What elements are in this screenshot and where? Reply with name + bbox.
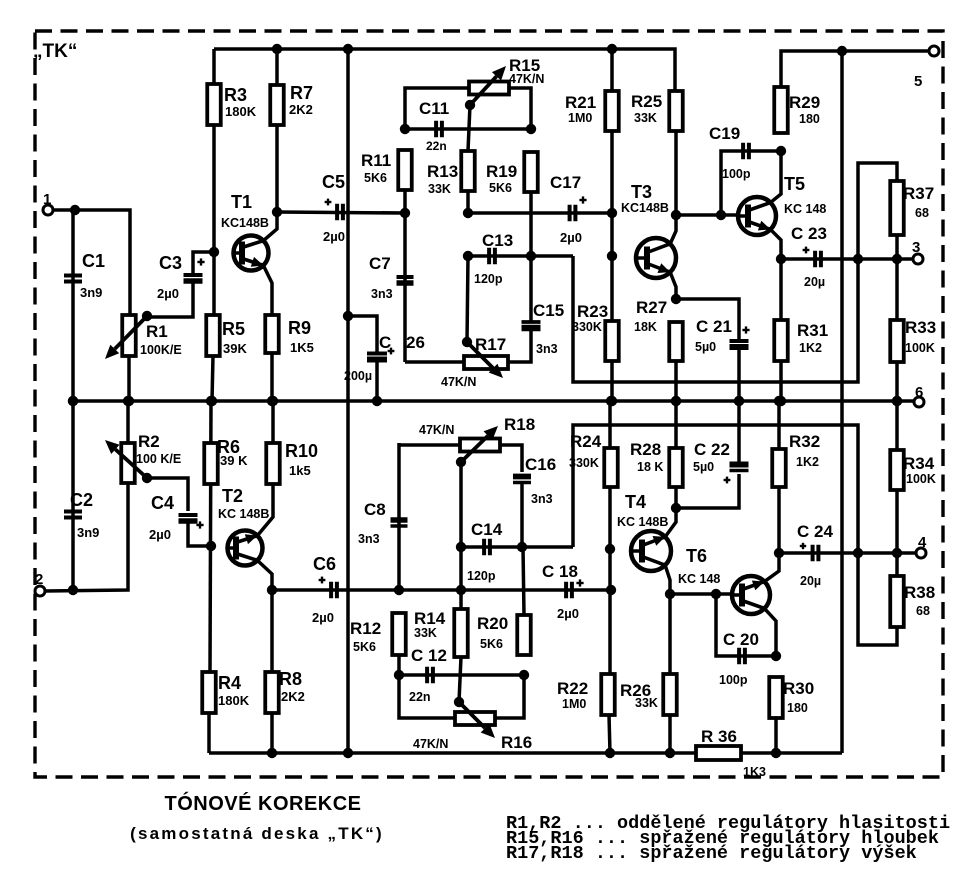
svg-text:2µ0: 2µ0 [323,229,345,244]
node T2 base [206,541,216,551]
capacitor C6 [312,554,337,625]
svg-text:R3: R3 [224,85,247,105]
plus mark C21 [742,326,749,333]
node C2 / ground bus [68,396,78,406]
wire R18 left wire [399,443,460,447]
node C6 / R12 / C8 [394,585,404,595]
wire T2 collector row [272,588,611,592]
wire R31 to ground bus [779,361,783,401]
resistor R4 [202,672,249,713]
node R15 wiper [465,100,475,110]
svg-text:39 K: 39 K [220,453,248,468]
terminal 6 [914,397,924,407]
node top bus / R21 [607,44,617,54]
potentiometer R17 body [464,356,508,369]
svg-text:2µ0: 2µ0 [560,230,582,245]
border frame (dashed) [35,31,943,777]
wire R13 bottom to C17 node [466,191,470,213]
svg-text:3n3: 3n3 [531,492,553,506]
resistor R33 [890,318,936,362]
resistor R28 [630,440,683,487]
node C19 tap [716,210,726,220]
plus mark C5 [325,199,332,206]
potentiometer R18 wiper arrow [461,426,498,462]
capacitor C11 [419,99,449,153]
transistor T3 [621,182,676,299]
wire C15 to C13 node [529,256,533,322]
resistor R11 [361,150,412,190]
svg-text:180: 180 [787,701,808,715]
svg-text:R17: R17 [475,335,506,354]
wire R9 to ground bus [270,353,274,401]
svg-text:5K6: 5K6 [364,171,387,185]
svg-text:R12: R12 [350,619,381,638]
svg-text:33K: 33K [428,182,451,196]
terminal 4 [916,548,926,558]
wire T3 collector to T5 base [676,213,738,217]
node C1 / ground bus [68,396,78,406]
svg-text:R27: R27 [636,298,667,317]
node supply link / C26 [343,311,353,321]
node C26 / ground bus [372,396,382,406]
wire R1 wiper to C3 [147,283,193,317]
wire R17 right to C15 [508,331,531,362]
wire R30 to bottom bus [774,718,778,753]
wire R19 bottom to C13 node [529,192,533,256]
svg-text:26: 26 [406,333,425,352]
potentiometer R16 wiper arrow [459,702,495,738]
svg-text:C15: C15 [533,301,564,320]
svg-text:5µ0: 5µ0 [695,340,716,354]
wire R11 riser to R15 [405,88,469,129]
capacitor C23 (electrolytic) [791,224,827,289]
node C14 wire / C18 wire [456,585,466,595]
wire R6/R4 column [210,401,211,672]
svg-text:C 23: C 23 [791,224,827,243]
potentiometer R1 wiper arrow [105,316,147,359]
svg-text:R4: R4 [218,673,241,693]
svg-text:22n: 22n [409,690,431,704]
svg-text:R13: R13 [427,162,458,181]
svg-text:68: 68 [916,604,930,618]
svg-text:100K/E: 100K/E [140,343,182,357]
svg-text:T2: T2 [222,486,243,506]
node R16 wiper [454,697,464,707]
wire C22 branch [676,474,739,508]
svg-text:C1: C1 [82,251,105,271]
node R5 / ground bus [207,396,217,406]
node top bus / supply link right [837,46,847,56]
wire C21 branch [676,299,739,342]
wire T4 collector to T6 base [670,592,732,596]
node T1 collector / C5 [272,207,282,217]
resistor R29 [774,87,820,133]
wire C26 to ground bus [375,360,379,401]
wire R37 arm [858,163,897,259]
resistor R5 [206,315,247,356]
svg-text:(samostatná deska „TK“): (samostatná deska „TK“) [130,824,384,843]
svg-text:68: 68 [915,206,929,220]
resistor R26 [620,674,677,715]
capacitor C12 [409,646,447,704]
potentiometer R16 body [455,712,495,725]
wire C20 loop [716,594,776,656]
wire R20 top column [523,547,524,615]
svg-text:C2: C2 [70,490,93,510]
node C11 right / R19 [526,124,536,134]
svg-text:R32: R32 [789,432,820,451]
capacitor C22 (electrolytic) [693,440,749,474]
transistor T2 [218,484,273,590]
svg-text:33K: 33K [635,696,658,710]
node C17 right / R21 [607,208,617,218]
node top bus / R7 [272,44,282,54]
node R34 / ground bus [892,396,902,406]
wire R8 to collector node [270,590,274,672]
svg-text:R16: R16 [501,733,532,752]
pin label 6 [915,384,923,401]
resistor R25 [631,91,683,131]
svg-text:180K: 180K [225,104,257,119]
svg-text:T1: T1 [231,192,252,212]
svg-text:C 20: C 20 [723,630,759,649]
terminal 5 [929,46,939,56]
label R2 value [136,432,181,466]
wire C4 to T2 base [188,522,211,546]
svg-text:C13: C13 [482,231,513,250]
node T2 collector / C6 [267,585,277,595]
node C23 / feedback [853,254,863,264]
svg-text:C 22: C 22 [694,440,730,459]
capacitor C4 (electrolytic) [149,493,198,542]
resistor R30 [769,677,814,718]
wire R32 column [777,401,781,449]
node bottom bus / R8 [267,748,277,758]
svg-text:C6: C6 [313,554,336,574]
node R9 / ground bus [267,396,277,406]
svg-text:5µ0: 5µ0 [693,460,714,474]
svg-text:R8: R8 [279,669,302,689]
svg-text:1K2: 1K2 [796,455,819,469]
capacitor C5 [322,172,345,244]
node C21 / ground bus [734,396,744,406]
resistor R32 [772,432,820,487]
node T5 emitter / C23 [776,254,786,264]
board name TK [33,41,77,62]
capacitor C8 [358,500,408,546]
pin label 3 [912,239,920,256]
node C20 tap [711,589,721,599]
svg-text:T3: T3 [631,182,652,202]
plus mark C3 [197,258,204,265]
capacitor C7 [369,254,414,301]
svg-text:R11: R11 [361,151,391,170]
node input 1 / C1 [70,205,80,215]
wire C12 row [399,673,524,677]
wire R26 to bottom bus [668,715,672,753]
svg-text:C14: C14 [471,520,503,539]
node R31 / ground bus [776,396,786,406]
resistor R13 [427,151,475,196]
pin label 1 [43,191,51,208]
wire R1 bottom to ground bus [127,356,131,401]
potentiometer R17 wiper arrow [467,342,503,378]
svg-text:„TK“: „TK“ [33,41,77,62]
svg-text:330K: 330K [572,320,602,334]
terminal 1 [43,205,53,215]
svg-text:2µ0: 2µ0 [157,286,179,301]
wire R28 to emitter node [674,487,678,508]
plus mark C4 [196,521,203,528]
svg-text:R2: R2 [138,432,160,451]
svg-text:100K: 100K [905,341,935,355]
wire C14 row [461,545,573,549]
label R17 [441,335,506,389]
plus mark C17 [579,196,586,203]
node T4 collector / T6 base wire [665,589,675,599]
wire R7 column to collector node [275,49,279,212]
svg-text:C 24: C 24 [797,522,833,541]
caption legend [506,813,950,864]
node input 2 / C2 [68,585,78,595]
potentiometer R2 wiper arrow [105,440,147,478]
svg-text:KC148B: KC148B [221,216,269,230]
svg-text:C16: C16 [525,455,556,474]
wire C22 to ground bus [737,401,741,464]
svg-text:C 18: C 18 [542,562,578,581]
wire R34 to terminal 4 node [895,490,899,553]
resistor R3 [207,84,256,125]
node T6 emitter / C24 [774,548,784,558]
wire terminal 1 to R1 column [53,210,130,315]
wire T1 collector to tone network [277,212,405,213]
wire R22 to bottom bus [609,715,610,753]
label R15 [509,56,544,86]
pin label 4 [918,534,927,551]
svg-text:T5: T5 [784,174,805,194]
node C19 right / R29 [776,146,786,156]
resistor R37 [890,181,934,235]
wire R11 to C5 node [403,190,407,213]
label R18 [419,415,535,437]
svg-text:5: 5 [914,73,922,90]
svg-text:5K6: 5K6 [353,640,376,654]
resistor R12 [350,613,406,655]
node R17 wiper [462,337,472,347]
node C11 left / R11 [400,124,410,134]
wire C17 row [468,211,612,215]
node C12 left [394,670,404,680]
wire R38 top to terminal 4 node [895,553,899,576]
svg-text:C: C [379,333,391,352]
svg-text:R28: R28 [630,440,661,459]
svg-text:R33: R33 [905,318,936,337]
node R2 / ground bus [123,396,133,406]
svg-text:R37: R37 [903,184,934,203]
wire R33 to ground bus [895,362,899,401]
capacitor C1 [64,251,105,300]
svg-text:1k5: 1k5 [289,463,311,478]
svg-text:1K2: 1K2 [799,341,822,355]
capacitor C3 (electrolytic) [157,253,203,301]
wire C2 column [71,401,75,590]
plus mark C23 [803,247,810,254]
wire R27 to ground bus [674,361,678,401]
wire R5 to ground bus [212,356,213,401]
capacitor C15 [522,301,565,356]
wire C7 column [403,213,407,362]
wire terminal 2 to R2 column [45,483,128,591]
wire R13 column [468,105,470,151]
node R10 / ground bus [268,396,278,406]
svg-text:R31: R31 [797,321,828,340]
wire R2 top to ground bus [126,401,130,443]
node R18 wiper [456,457,466,467]
svg-text:C4: C4 [151,493,174,513]
svg-text:120p: 120p [474,272,503,286]
node R28 / ground bus [671,396,681,406]
svg-text:39K: 39K [223,341,247,356]
plus mark C22 [724,477,731,484]
wire top supply bus right segment [781,51,929,87]
svg-text:20µ: 20µ [800,574,821,588]
node R33 / ground bus [892,396,902,406]
node T3 collector / R25 [671,210,681,220]
svg-text:R38: R38 [904,583,935,602]
plus mark C6 [319,577,326,584]
capacitor C13 [474,231,513,286]
plus mark C24 [800,543,806,549]
wire R32 to emitter node [777,487,781,553]
transistor T6 [678,546,779,656]
wire C23 row [781,257,897,261]
svg-text:180K: 180K [218,693,250,708]
resistor R27 [634,298,683,361]
resistor R38 [890,576,935,627]
wire to terminal 3 [897,257,913,261]
svg-text:2µ0: 2µ0 [149,527,171,542]
svg-text:47K/N: 47K/N [413,737,448,751]
resistor R20 [477,614,531,655]
svg-text:R10: R10 [285,441,318,461]
wire R18 right to C16 [500,445,522,472]
wire C8 column [397,443,401,590]
wire R21 column [610,49,614,321]
node C14 left [456,542,466,552]
svg-text:100p: 100p [722,167,751,181]
wire R24 column [608,401,612,674]
wire bottom supply bus left of R36 [209,751,696,755]
node terminal 3 / R33 [892,254,902,264]
svg-text:R21: R21 [565,93,596,112]
svg-text:33K: 33K [634,111,657,125]
transistor T5 [738,151,826,259]
node C22 / ground bus [734,396,744,406]
pin label 2 [35,571,43,588]
svg-text:100p: 100p [719,673,748,687]
svg-text:KC148B: KC148B [621,201,669,215]
svg-text:18K: 18K [634,320,657,334]
wire R10 top to ground bus [271,401,275,443]
capacitor C14 [467,520,503,583]
svg-text:3n3: 3n3 [358,532,380,546]
transistor T1 [221,192,277,315]
node C24 / feedback [853,548,863,558]
node bottom bus / supply link left [343,748,353,758]
resistor R9 [265,315,314,355]
pin label 5 [914,73,922,90]
svg-text:100K: 100K [906,472,936,486]
wire R37 to terminal 3 node [895,235,899,259]
resistor R6 [204,437,248,484]
svg-text:T4: T4 [625,492,646,512]
svg-text:18 K: 18 K [637,460,663,474]
svg-text:R23: R23 [577,302,608,321]
svg-text:KC 148B: KC 148B [617,515,668,529]
svg-text:120p: 120p [467,569,496,583]
resistor R10 [266,441,318,484]
svg-text:R5: R5 [222,319,245,339]
plus mark C26 [388,348,395,355]
resistor R8 [265,669,305,713]
svg-text:200µ: 200µ [344,369,372,383]
svg-text:R18: R18 [504,415,535,434]
svg-text:5K6: 5K6 [489,181,512,195]
node C12 right / R20 [519,670,529,680]
svg-text:3n3: 3n3 [371,287,393,301]
wire R12 to C12 row [397,655,401,675]
wire R38 arm [858,553,897,645]
node bottom bus / R30 [771,748,781,758]
svg-text:2µ0: 2µ0 [312,610,334,625]
svg-text:C19: C19 [709,124,740,143]
resistor R19 [486,152,538,195]
wire bottom supply bus right of R36 [741,751,842,755]
wire C13 row to feedback [468,254,573,258]
wire center ground bus [68,399,914,403]
wire R26 column [668,594,672,674]
svg-text:180: 180 [799,112,820,126]
potentiometer R15 body [469,82,509,95]
node R32 / ground bus [774,396,784,406]
node C13 left [463,251,473,261]
wire vertical supply link right [840,51,844,753]
node R24 / ground bus [606,396,616,406]
resistor R22 [557,674,615,715]
node bottom bus / R26 [665,748,675,758]
wire vertical supply link left [346,49,350,753]
svg-text:R25: R25 [631,92,662,111]
wire top supply bus left segment [214,49,675,91]
capacitor C2 [64,490,99,540]
svg-text:47K/N: 47K/N [419,423,454,437]
node terminal 4 / R34 [892,548,902,558]
svg-text:C8: C8 [364,500,386,519]
node C13 right / C15 [526,251,536,261]
wire R4 to bottom bus [207,713,211,753]
wire R17 wiper column [467,256,468,342]
svg-text:2K2: 2K2 [289,102,313,117]
node R2 wiper [142,473,152,483]
resistor R21 [565,91,619,131]
svg-text:C3: C3 [159,253,182,273]
svg-text:3n9: 3n9 [77,525,99,540]
wire C3 to T1 base [193,252,214,274]
svg-text:47K/N: 47K/N [441,375,476,389]
capacitor C18 (electrolytic) [542,562,579,621]
wire C24 row [779,551,897,555]
node C20 right / R30 [771,651,781,661]
